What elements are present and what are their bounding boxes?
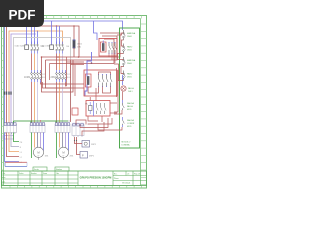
junction red tap on PE bus [40, 120, 41, 121]
cable tag marks on supply bundle [4, 92, 12, 95]
junction on L3 at QM1 tap [37, 30, 38, 31]
wire relay box A to panel SA1 [117, 33, 124, 46]
push button SB2 [123, 71, 133, 81]
wire QM1 output phase B [34, 54, 36, 71]
svg-text:Plano:: Plano: [114, 178, 119, 180]
panel output contact OUT1 [123, 100, 135, 111]
terminal strip X1 [4, 123, 17, 134]
wire drop L1 to QM1 [31, 26, 33, 44]
blue pin in relay row [93, 101, 95, 116]
svg-text:CONFIR: CONFIR [127, 123, 135, 125]
earth wire to motor M1 frame [31, 133, 33, 159]
wire QM2 output phase B [59, 54, 61, 71]
contact 2 in box A [112, 42, 114, 60]
PDF badge [0, 0, 44, 27]
wire KM1 load phase C [37, 82, 39, 124]
svg-text:FALLA: FALLA [127, 105, 133, 108]
frame zone tick marks [2, 16, 147, 189]
wire KM1 aux contact nc [43, 82, 85, 88]
pressure switch box [80, 152, 95, 159]
svg-text:PARO: PARO [127, 46, 133, 49]
supply line N label wire [11, 133, 22, 149]
supply line L2 label wire [7, 133, 22, 159]
contact 2 in box B [102, 74, 104, 87]
svg-text:PE: PE [20, 142, 23, 144]
panel lamp feed wire (blue) [122, 75, 124, 85]
neutral wire snake (blue) [85, 52, 92, 96]
svg-text:Firma: Firma [43, 173, 47, 175]
wire fuse FU1 to control bus [73, 48, 75, 57]
PE drop to strip X3 [55, 121, 57, 124]
control bus wire run 2 [46, 36, 118, 60]
drawing frame inner border [4, 19, 141, 186]
starter group wiring loop KM2 outer [42, 57, 74, 92]
bus N (violet) wire [11, 34, 36, 124]
svg-text:KA: KA [85, 103, 88, 106]
junction control bus at QM2 [57, 56, 92, 64]
svg-text:L2: L2 [20, 157, 22, 159]
svg-text:P: P [82, 155, 84, 158]
svg-text:N: N [20, 147, 22, 149]
svg-text:Nombre: Nombre [31, 173, 37, 175]
svg-text:1M1: 1M1 [45, 155, 50, 157]
wire lamp to output contacts [122, 92, 124, 101]
wires to pressure devices [74, 137, 82, 155]
relay coil KT1 [85, 102, 92, 114]
svg-text:1 3 5: 1 3 5 [42, 74, 46, 76]
wire KM1 aux contact no [40, 82, 84, 85]
starter group wiring stub KM2 [49, 64, 51, 81]
relay box A (red) [99, 39, 117, 57]
supply line L1 label wire [5, 133, 22, 164]
circuit breaker QM2 [40, 21, 70, 54]
junction on L2 at FU1 tap [73, 25, 75, 27]
circuit breaker QM1 [15, 21, 45, 54]
PE drop to strip X1 [13, 121, 15, 124]
wire KM2 load phase A [56, 82, 58, 124]
contact 1 in box A [109, 42, 111, 57]
svg-text:10A: 10A [77, 46, 81, 49]
wire KM2 load phase B [59, 82, 61, 124]
contact 1 in box B [98, 74, 100, 87]
wire KM1 load phase A [31, 82, 33, 124]
PE earth bus (green) [14, 120, 69, 121]
logo stamp box [5, 162, 27, 166]
wire QM1 output phase A [31, 54, 33, 71]
junction on L2 at QM2 tap [56, 25, 58, 27]
contactor KM1 main contacts [24, 70, 46, 82]
wire drop L2 to QM1 [34, 26, 36, 44]
pressure transmitter box [82, 141, 97, 148]
title text GRUPO PRESION [80, 177, 112, 180]
incoming supply terminal block [3, 136, 14, 140]
wire panel SB2 to relay box B [114, 64, 124, 112]
svg-text:PARO: PARO [127, 73, 133, 76]
control fuse FU1 [73, 26, 83, 49]
svg-text:FALLA: FALLA [128, 87, 134, 90]
svg-text:MODULO: MODULO [122, 142, 131, 144]
svg-text:MARCHA: MARCHA [127, 32, 136, 35]
wire drop L2 to QM2 [59, 26, 61, 44]
svg-text:1FU1: 1FU1 [77, 44, 83, 46]
svg-text:2SA1: 2SA1 [127, 62, 132, 65]
svg-text:CUAD 1QM1: CUAD 1QM1 [15, 45, 25, 48]
bus L2 (red) wire [7, 26, 80, 124]
svg-text:SALIDA: SALIDA [127, 102, 134, 105]
blue control feed to protector box [94, 21, 98, 40]
svg-text:DOMINA: DOMINA [122, 144, 131, 147]
svg-text:Fecha: Fecha [19, 173, 24, 175]
panel output contact OUT2 [123, 117, 135, 128]
indicator lamp HL1 [121, 86, 135, 93]
wire drop L3 to QM1 [37, 31, 39, 44]
wire panel outputs to strip X4 [98, 110, 122, 130]
svg-text:Hoja 1/1: Hoja 1/1 [134, 174, 140, 176]
svg-text:2SB1: 2SB1 [127, 77, 132, 79]
motor M2 [58, 147, 74, 160]
selector switch SA2 [123, 57, 136, 67]
wire QM2 output phase A [56, 54, 58, 71]
push button SB1 [123, 44, 133, 54]
terminal strip X3 [55, 123, 70, 134]
wire QM2 output phase C [62, 54, 64, 71]
svg-text:GP-150-01: GP-150-01 [122, 183, 130, 185]
relay coil KA2 in box B [86, 74, 92, 87]
svg-text:25A: 25A [66, 45, 70, 48]
svg-text:MOD: MOD [127, 126, 132, 128]
junction on L2 at QM1 tap [31, 25, 33, 27]
cabinet enclosure outline [14, 38, 71, 122]
contact 3 in box A [115, 42, 117, 63]
wire relay box A to panel SB1 [118, 54, 124, 74]
svg-text:2 4 6: 2 4 6 [67, 77, 71, 79]
title block table [2, 171, 147, 186]
selector switch SA1 [123, 30, 136, 40]
svg-text:Rev.: Rev. [3, 177, 7, 179]
wire KM1 load phase B [34, 82, 36, 124]
svg-text:Dib.: Dib. [3, 173, 6, 175]
svg-text:1HL1: 1HL1 [128, 91, 133, 93]
svg-text:Esc.: Esc. [114, 174, 118, 176]
svg-text:SALIDA: SALIDA [127, 119, 134, 122]
feeder wires left of box B [67, 57, 85, 122]
svg-text:GRUPO PRESION 150GPM: GRUPO PRESION 150GPM [80, 177, 112, 180]
wire QM1 output phase C [37, 54, 39, 71]
svg-text:2M1: 2M1 [70, 155, 75, 157]
title block pre-cells [33, 167, 69, 171]
wire KM2 aux contact [66, 82, 67, 86]
svg-text:PDF: PDF [9, 8, 36, 23]
svg-text:Obs: Obs [56, 173, 59, 175]
contactor KM2 main contacts [51, 70, 71, 82]
svg-text:MOD: MOD [127, 109, 132, 111]
wire X2 to motor M1 [35, 133, 44, 151]
relay aux contacts row [97, 103, 107, 114]
supply line PE label wire [14, 133, 23, 144]
relay coil KA1 in box A [101, 41, 107, 53]
svg-text:1SB1: 1SB1 [127, 50, 132, 52]
wires lower relay row [88, 88, 117, 122]
terminal strip X4 [72, 123, 84, 137]
svg-text:1SP1: 1SP1 [91, 144, 97, 146]
terminal strip X2 [30, 123, 45, 134]
relay box B (red) [84, 70, 117, 96]
wire X3 to motor M2 [60, 133, 69, 151]
motor M1 [33, 147, 49, 160]
svg-text:CUAD 2QM1: CUAD 2QM1 [40, 45, 50, 48]
wires inside relay box B [88, 72, 110, 93]
PE drop to strip X2 [30, 121, 32, 124]
svg-text:2SP1: 2SP1 [89, 156, 95, 158]
control bus wire run 3 [50, 39, 115, 64]
drawing frame outer border [2, 16, 147, 189]
wire drop L1 to QM2 [56, 26, 58, 44]
svg-text:1 3 5: 1 3 5 [67, 74, 71, 76]
control bus wire run 1 [41, 33, 120, 58]
panel box label [122, 142, 131, 147]
svg-text:MARCHA: MARCHA [127, 59, 136, 62]
nested wires to strip X4 [76, 118, 112, 136]
door panel box outline (green) [120, 28, 140, 148]
bus L3 (orange) wire [9, 31, 63, 124]
wire KM2 load phase C [62, 82, 64, 124]
earth wire to motor M2 frame [56, 133, 58, 159]
relay timer box row [72, 101, 110, 117]
svg-text:Nombre: Nombre [56, 168, 62, 171]
svg-text:s/e: s/e [127, 174, 129, 176]
svg-text:2 4 6: 2 4 6 [42, 77, 46, 79]
svg-text:1KM1: 1KM1 [24, 76, 31, 79]
supply line L3 label wire [9, 133, 22, 154]
starter group wiring loop KM2 inner [46, 60, 71, 88]
title block right cells text [114, 174, 140, 185]
svg-text:1SA1: 1SA1 [127, 35, 132, 38]
bus L1 (blue) wire [5, 21, 123, 124]
contact 4 in box B [110, 74, 112, 87]
contact 3 in box B [106, 74, 108, 87]
svg-text:L3: L3 [20, 152, 22, 154]
